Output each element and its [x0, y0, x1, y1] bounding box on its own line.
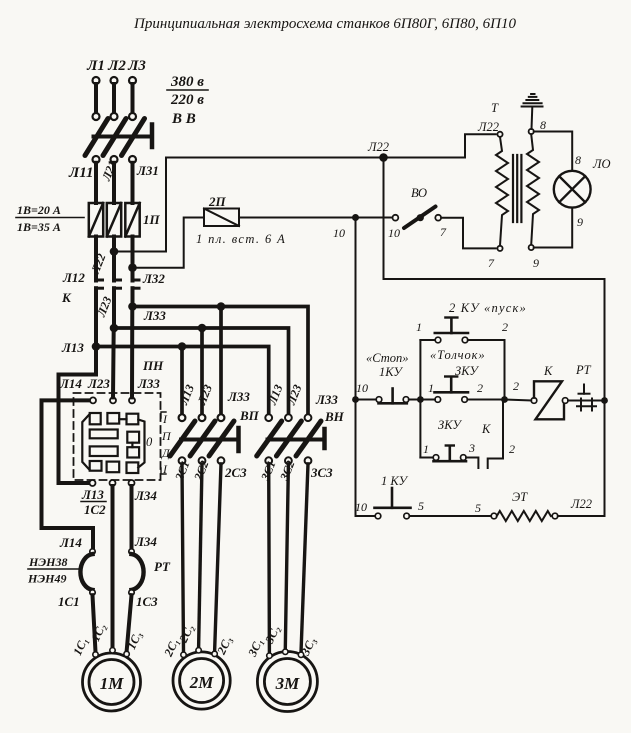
switch ВВ handle	[150, 125, 155, 148]
switch ВВ pole3 bottom terminal	[129, 156, 136, 163]
fuse 1П pole1	[89, 203, 103, 237]
ПН terminal Л14	[90, 397, 96, 403]
wire Л33 segment	[131, 288, 135, 308]
terminal Л3	[129, 77, 136, 84]
svg-text:Л22: Л22	[88, 251, 109, 276]
svg-text:10: 10	[355, 500, 367, 514]
fuse 1П pole3	[125, 203, 139, 237]
node Л13-ВП junction	[178, 342, 187, 351]
wire Л2 drop	[112, 84, 116, 113]
svg-text:ЭТ: ЭТ	[512, 490, 528, 504]
wire 3С2	[285, 464, 288, 649]
heater НЭН49 element	[132, 554, 144, 590]
svg-text:220 в: 220 в	[170, 92, 204, 108]
wire 3С3	[301, 464, 308, 653]
ПН terminal Л33 top	[129, 397, 135, 403]
heater ЭТ left terminal	[491, 513, 497, 519]
svg-text:1М: 1М	[100, 674, 125, 693]
svg-text:РТ: РТ	[575, 363, 592, 377]
node 10 junction	[352, 214, 359, 221]
svg-text:7: 7	[488, 256, 495, 270]
wire Л12	[94, 237, 98, 281]
svg-text:К: К	[543, 364, 553, 378]
wire 1С2 to motor	[111, 486, 115, 648]
svg-text:8: 8	[575, 153, 581, 167]
svg-text:1С1: 1С1	[58, 594, 80, 609]
svg-text:2: 2	[477, 381, 483, 395]
wire 2С1	[182, 464, 184, 652]
wire пуск row left	[420, 339, 435, 341]
wire coil to РТ	[568, 400, 605, 402]
wire Л22 down to control	[384, 158, 605, 398]
switch ВН blade1	[257, 421, 282, 456]
switch ВВ pole2 top terminal	[111, 113, 118, 120]
wire Л34 drop	[130, 486, 134, 549]
contact К (NO)	[466, 400, 503, 469]
node 2 junction	[501, 396, 508, 403]
button 2КУ пуск (NO)	[435, 318, 468, 343]
svg-text:Л12: Л12	[62, 270, 85, 285]
switch ВВ blade1	[85, 119, 108, 156]
wire node2 to coil	[505, 400, 532, 401]
svg-text:Л34: Л34	[134, 534, 157, 549]
svg-text:1: 1	[423, 442, 429, 456]
svg-text:1С₂: 1С₂	[88, 621, 108, 643]
wire 1С1 to motor	[93, 595, 96, 652]
node Л33 bus start junction	[128, 302, 137, 311]
switch ВВ pole2 bottom terminal	[111, 156, 118, 163]
svg-text:1: 1	[416, 320, 422, 334]
transformer secondary winding	[527, 134, 539, 245]
svg-text:«Толчок»: «Толчок»	[430, 348, 486, 362]
heater ЭТ	[497, 511, 551, 521]
svg-text:Л32: Л32	[142, 271, 165, 286]
svg-text:2М: 2М	[189, 673, 215, 692]
svg-text:8: 8	[540, 118, 546, 132]
label НЭН38/НЭН49	[27, 555, 81, 586]
switch ВВ blade3	[122, 119, 145, 156]
switch ВВ pole1 bottom terminal	[93, 156, 100, 163]
switch ВН blade2	[276, 421, 301, 456]
heater НЭН38 bottom terminal	[90, 590, 95, 595]
svg-text:ЗКУ: ЗКУ	[438, 418, 462, 432]
svg-text:2: 2	[502, 320, 508, 334]
switch ВП top terminals	[179, 414, 225, 421]
switch ВН blade3	[296, 421, 321, 456]
svg-text:1В=35 А: 1В=35 А	[17, 220, 61, 234]
motor 2М	[173, 652, 230, 709]
transformer primary top terminal	[497, 132, 502, 137]
svg-text:Л33: Л33	[227, 389, 250, 404]
node Л13 bus start junction	[92, 342, 101, 351]
svg-text:Л14: Л14	[59, 376, 82, 391]
motor 2М terminal labels	[161, 622, 235, 659]
transformer primary winding	[496, 137, 508, 246]
wire Л11	[94, 163, 98, 203]
wire Л23 segment	[112, 288, 116, 329]
node Стоп junction	[352, 396, 359, 403]
drum position marks	[161, 412, 172, 476]
svg-text:Л22: Л22	[367, 140, 389, 154]
switch ВП blade1	[170, 421, 195, 456]
terminal Л2	[111, 77, 118, 84]
switch ВВ bar	[94, 135, 151, 139]
svg-text:2П: 2П	[208, 194, 227, 209]
svg-text:Л22: Л22	[570, 497, 592, 511]
svg-text:5: 5	[418, 499, 424, 513]
wire Л3 drop	[131, 84, 135, 113]
wire Л1 drop	[94, 84, 98, 113]
svg-text:Л22: Л22	[477, 120, 499, 134]
svg-text:Л13: Л13	[81, 487, 104, 502]
svg-text:380 в: 380 в	[170, 74, 204, 90]
switch ВП labels	[176, 382, 260, 423]
heater НЭН38 top terminal	[90, 549, 95, 554]
svg-text:«Стоп»: «Стоп»	[366, 351, 409, 365]
svg-text:Л14: Л14	[59, 535, 82, 550]
svg-text:Л31: Л31	[136, 163, 159, 178]
motor 1М terminals	[93, 648, 130, 658]
switch ВО pivot dot	[417, 214, 424, 221]
wire branch right vertical	[504, 340, 506, 400]
svg-text:Л3: Л3	[127, 58, 146, 74]
heater НЭН49 bottom terminal	[129, 590, 134, 595]
node branch junction	[417, 396, 424, 403]
svg-text:3М: 3М	[275, 674, 301, 693]
wire ВП pole3 feed	[219, 307, 223, 415]
contactor К main contact pole3	[133, 280, 140, 288]
wire 1С3 to motor	[127, 595, 132, 651]
svg-text:1С₁: 1С₁	[70, 635, 90, 657]
label 1В=20А/1В=35А	[16, 203, 84, 234]
wire lower branch left	[420, 457, 433, 459]
svg-text:Л1: Л1	[86, 58, 105, 74]
motor 3М terminal labels	[245, 623, 319, 659]
node Л22 transformer junction	[379, 153, 388, 162]
transformer secondary bottom terminal	[529, 245, 534, 250]
svg-text:0: 0	[146, 435, 153, 449]
heater НЭН38 element	[80, 554, 92, 590]
svg-text:I: I	[162, 412, 168, 426]
switch ВН labels	[265, 382, 345, 424]
svg-text:К: К	[61, 290, 72, 305]
svg-text:Л2: Л2	[107, 58, 126, 74]
svg-text:2С3: 2С3	[224, 465, 247, 480]
ПН terminal Л13 bottom	[90, 480, 96, 486]
node Л32 junction	[128, 263, 137, 272]
svg-text:Л33: Л33	[137, 376, 160, 391]
fuse 2П	[204, 209, 239, 227]
svg-text:ВН: ВН	[324, 409, 345, 424]
contactor coil К	[531, 381, 568, 419]
switch ВВ pole1 top terminal	[93, 113, 100, 120]
svg-text:Л23: Л23	[87, 376, 110, 391]
bus Л23	[114, 328, 289, 415]
button Толчок ЗКУ (NO)	[435, 377, 469, 403]
svg-text:2: 2	[513, 379, 519, 393]
svg-text:Л23: Л23	[194, 382, 215, 407]
switch ВН bar	[268, 438, 324, 442]
motor 3М terminals	[267, 649, 304, 658]
svg-text:В В: В В	[171, 111, 196, 127]
heater НЭН49 top terminal	[129, 549, 134, 554]
svg-text:2 КУ «пуск»: 2 КУ «пуск»	[449, 301, 527, 315]
wire Л13 elbow to ПН	[59, 347, 97, 484]
label 380в/220в	[167, 74, 208, 127]
switch ВП blade2	[190, 421, 215, 456]
svg-text:Л13: Л13	[61, 340, 84, 355]
button 1КУ bottom contact	[375, 488, 411, 519]
wire ЭТ to right vertical	[558, 401, 605, 517]
svg-text:9: 9	[533, 256, 539, 270]
ПН terminal Л23 top	[110, 397, 116, 403]
wire Л21	[112, 163, 116, 203]
svg-text:П: П	[161, 429, 172, 443]
transformer primary bottom terminal	[497, 246, 502, 251]
svg-text:3С3: 3С3	[310, 465, 333, 480]
node Л22 junction	[110, 247, 119, 256]
ПН terminal 1С2 bottom	[110, 480, 116, 486]
fuse 1П pole2	[107, 203, 121, 237]
wire Л13 segment	[94, 288, 98, 348]
wire Л32	[131, 237, 135, 281]
wire secondary top to lamp	[534, 132, 572, 171]
wire ВП pole1 feed	[180, 347, 184, 415]
switch ВН output labels	[258, 459, 333, 484]
svg-text:1С3: 1С3	[136, 594, 158, 609]
wire branch left vertical	[419, 340, 421, 458]
node Л23-ВП junction	[198, 324, 207, 333]
wire bottom row middle	[409, 515, 491, 517]
svg-text:1В=20 А: 1В=20 А	[17, 203, 61, 217]
wire Л22	[112, 237, 116, 281]
terminal Л1	[93, 77, 100, 84]
svg-text:Л34: Л34	[134, 488, 157, 503]
contactor К main contact pole2	[114, 280, 121, 288]
transformer secondary top terminal	[529, 129, 534, 134]
wire Толчок wires	[420, 399, 435, 401]
svg-text:5: 5	[475, 501, 481, 515]
switch ВН bottom terminals	[265, 457, 311, 464]
svg-text:ВО: ВО	[411, 186, 427, 200]
motor 1М terminal labels	[70, 621, 144, 657]
button ЗКУ 1-3 (NC)	[433, 446, 466, 462]
heater ЭТ right terminal	[552, 513, 558, 519]
svg-text:T: T	[491, 101, 499, 115]
svg-text:ЛО: ЛО	[592, 157, 611, 171]
switch ВП handle	[236, 428, 241, 451]
svg-text:Л11: Л11	[68, 165, 93, 181]
wire Л22 to transformer primary	[384, 134, 496, 157]
svg-text:10: 10	[333, 226, 345, 240]
svg-text:1КУ: 1КУ	[379, 365, 403, 379]
wire lamp bottom to secondary bottom	[534, 208, 572, 248]
svg-text:Л13: Л13	[176, 382, 197, 407]
switch ВП bottom terminals	[179, 457, 225, 464]
wire 3С1	[267, 464, 271, 653]
switch ВП bar	[181, 438, 238, 442]
wire ВО to primary bottom	[441, 218, 495, 249]
ground wire	[531, 107, 534, 129]
svg-text:Л33: Л33	[143, 308, 166, 323]
motor 2М terminals	[181, 648, 218, 658]
svg-text:9: 9	[577, 215, 583, 229]
switch ВВ pole3 top terminal	[129, 113, 136, 120]
wire ПН pole2 drop	[111, 329, 116, 397]
lamp ЛО	[554, 171, 591, 208]
svg-text:РТ: РТ	[154, 559, 171, 574]
svg-text:I: I	[162, 462, 168, 476]
svg-text:1С2: 1С2	[84, 502, 106, 517]
svg-text:1 пл. вст. 6 А: 1 пл. вст. 6 А	[196, 232, 286, 246]
svg-text:К: К	[481, 422, 491, 436]
wire Л32 tap to fuse 2П	[133, 218, 205, 268]
wire Стоп to branch node	[409, 399, 421, 401]
svg-text:1П: 1П	[143, 212, 161, 227]
svg-text:1: 1	[428, 381, 434, 395]
wire ПН pole3 drop	[130, 308, 134, 397]
transformer core	[513, 155, 521, 222]
drum switch contacts	[82, 413, 144, 473]
wire Л31	[131, 163, 135, 203]
wire 2С3	[215, 464, 221, 652]
wire to Стоп	[356, 399, 377, 401]
motor 3М	[257, 652, 317, 712]
switch ВП blade3	[209, 421, 234, 456]
svg-text:НЭН49: НЭН49	[27, 572, 66, 586]
svg-text:3: 3	[468, 441, 475, 455]
wire control left vertical	[356, 218, 376, 517]
node Л23 bus start junction	[110, 324, 119, 333]
svg-text:Принципиальная электросхема ст: Принципиальная электросхема станков 6П80…	[133, 16, 516, 32]
contactor К main contact pole1	[96, 280, 103, 288]
button Стоп 1КУ (NC)	[376, 389, 409, 404]
switch ВО left terminal	[393, 215, 399, 221]
svg-text:10: 10	[388, 226, 400, 240]
motor 1М	[83, 653, 141, 711]
svg-text:10: 10	[356, 381, 368, 395]
ПН terminal Л34 bottom	[129, 480, 135, 486]
bus Л33	[133, 307, 309, 415]
wire Л22 tap to transformer feed	[114, 158, 384, 252]
ПН dashed box	[74, 393, 161, 480]
contact РТ (thermal)	[577, 385, 596, 411]
switch ВН handle	[322, 429, 327, 448]
wire ВП pole2 feed	[200, 328, 204, 415]
node РТ junction	[601, 397, 608, 404]
ground	[522, 94, 543, 107]
switch ВО right terminal	[435, 215, 441, 221]
switch ВП output labels	[172, 459, 247, 484]
switch ВО blade	[404, 207, 436, 229]
wire 10 line	[239, 217, 392, 219]
svg-text:ЗКУ: ЗКУ	[455, 364, 479, 378]
bus Л13	[96, 347, 269, 415]
svg-text:НЭН38: НЭН38	[28, 555, 67, 569]
svg-text:1 КУ: 1 КУ	[381, 474, 409, 488]
svg-text:2: 2	[509, 442, 515, 456]
svg-text:ВП: ВП	[239, 408, 260, 423]
svg-text:7: 7	[440, 225, 447, 239]
switch ВВ blade2	[103, 119, 126, 156]
switch ВН top terminals	[265, 414, 311, 421]
label Л13/1С2	[81, 487, 106, 517]
svg-text:Л33: Л33	[315, 392, 338, 407]
wire 2С2	[199, 464, 202, 648]
svg-text:ПН: ПН	[142, 358, 164, 373]
node Л33-ВП junction	[217, 302, 226, 311]
wire пуск row right	[468, 339, 505, 341]
wire Л14 path	[42, 400, 94, 548]
